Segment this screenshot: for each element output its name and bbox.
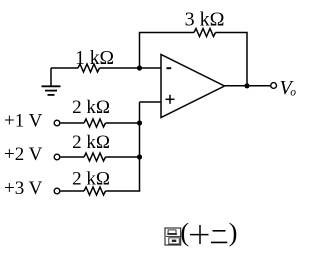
svg-text:2 kΩ: 2 kΩ: [72, 97, 110, 118]
wire row2 left: [60, 156, 84, 158]
resistor R2 3k zigzag: [194, 29, 216, 37]
svg-text:+2 V: +2 V: [4, 144, 43, 165]
terminal circle input 1: [54, 120, 60, 126]
svg-text:3 kΩ: 3 kΩ: [185, 8, 225, 30]
wire node A up to feedback: [139, 33, 141, 69]
caption character ten: [190, 225, 209, 244]
wire feedback down: [246, 33, 248, 86]
svg-text:+1 V: +1 V: [4, 110, 43, 131]
wire row3 left: [60, 190, 84, 192]
svg-text:1 kΩ: 1 kΩ: [75, 48, 114, 69]
caption figure character Tu (drawn): [165, 228, 181, 245]
svg-text:2 kΩ: 2 kΩ: [72, 132, 110, 153]
node dot row2 bus: [137, 154, 142, 159]
resistor R5 2k zigzag row3: [84, 187, 106, 195]
resistor R3 2k zigzag row1: [84, 119, 106, 127]
svg-text:): ): [229, 217, 238, 247]
wire input bus vertical: [139, 102, 141, 191]
op-amp plus sign: [166, 95, 175, 104]
wire row3 to bus: [106, 190, 141, 192]
wire ground to R1: [51, 67, 78, 69]
op-amp minus sign: [166, 67, 171, 69]
wire top left segment: [139, 32, 194, 34]
svg-text:(: (: [180, 217, 189, 247]
wire row1 to bus: [106, 122, 140, 124]
node A junction dot: [137, 65, 142, 70]
terminal circle input 3: [54, 188, 60, 194]
wire output: [225, 85, 271, 87]
node dot row1 bus: [137, 120, 142, 125]
resistor R1 1k zigzag: [78, 64, 100, 72]
wire row2 to bus: [106, 156, 140, 158]
op-amp U1 triangle: [161, 55, 225, 118]
ground: [42, 68, 61, 95]
svg-text:o: o: [290, 86, 296, 98]
svg-text:+3 V: +3 V: [4, 178, 43, 199]
wire plus input: [140, 101, 162, 103]
terminal circle input 2: [54, 154, 60, 160]
svg-text:2 kΩ: 2 kΩ: [72, 169, 110, 190]
wire top right segment: [216, 32, 248, 34]
wire node A to op-amp minus input: [140, 67, 162, 69]
wire row1 left: [60, 122, 84, 124]
resistor R4 2k zigzag row2: [84, 153, 106, 161]
wire R1 to node A: [100, 67, 140, 69]
caption character two: [211, 231, 227, 243]
node output dot: [244, 83, 249, 88]
terminal circle output: [271, 83, 277, 89]
